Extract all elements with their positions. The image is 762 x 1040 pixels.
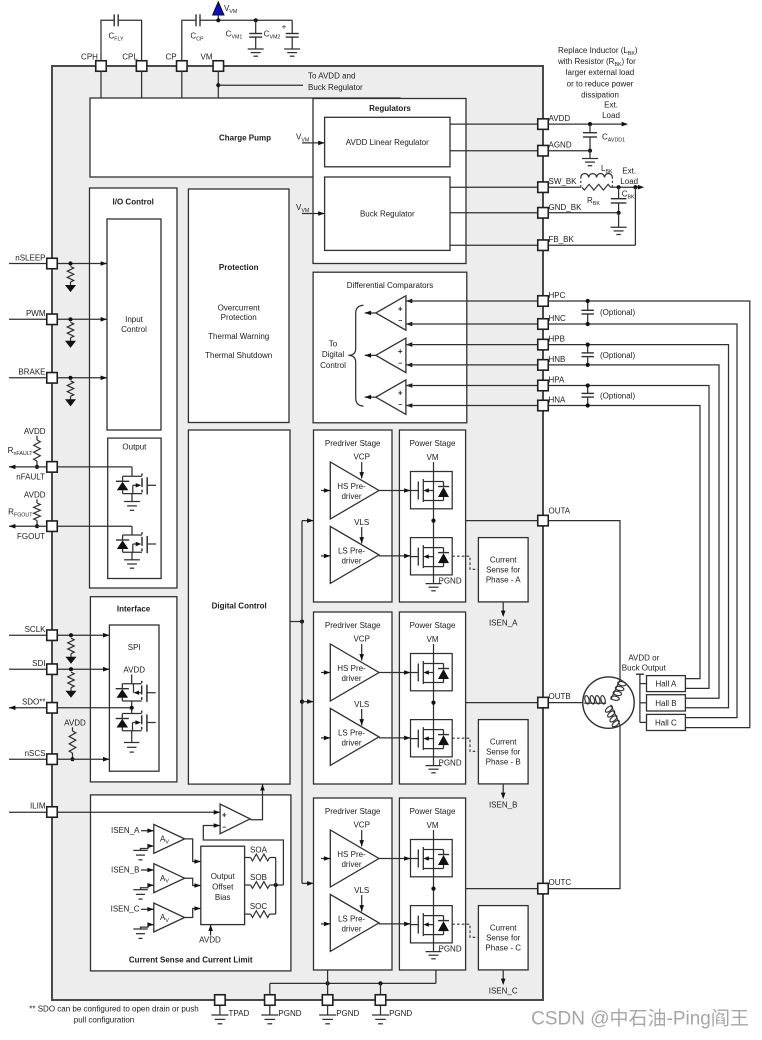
svg-text:CVM1: CVM1 bbox=[226, 30, 243, 41]
pin HNA with wires to comparator and Hall bbox=[406, 396, 700, 679]
block Predriver Stage C bbox=[314, 798, 393, 970]
pin PWM and wire to Input Control bbox=[9, 309, 107, 348]
wire phase node B bbox=[431, 691, 435, 720]
svg-text:driver: driver bbox=[341, 924, 361, 933]
block Power Stage B bbox=[399, 612, 465, 784]
svg-text:AVDD: AVDD bbox=[24, 427, 46, 436]
wire SW_BK output node with Ext Load arrow bbox=[617, 167, 645, 190]
wire CPH to Charge Pump bbox=[100, 71, 102, 98]
svg-text:Current Sense and Current Limi: Current Sense and Current Limit bbox=[129, 956, 253, 965]
pin HPA with wires to comparator and Hall bbox=[406, 376, 709, 689]
block Power Stage C bbox=[399, 798, 465, 970]
svg-text:Input: Input bbox=[125, 315, 144, 324]
svg-text:ISEN_A: ISEN_A bbox=[111, 826, 140, 835]
svg-text:PGND: PGND bbox=[439, 576, 462, 585]
svg-text:Thermal Warning: Thermal Warning bbox=[208, 332, 269, 341]
transistor nFAULT output driver with ground bbox=[116, 473, 156, 510]
svg-text:ISEN_C: ISEN_C bbox=[489, 987, 518, 996]
wire VM top rail bbox=[216, 18, 292, 22]
svg-text:−: − bbox=[398, 360, 402, 367]
svg-text:CSDN @中石油-Ping阎王: CSDN @中石油-Ping阎王 bbox=[531, 1008, 749, 1030]
svg-text:Hall C: Hall C bbox=[655, 719, 677, 728]
wire AGND regulator to pin bbox=[450, 150, 543, 152]
capacitor optional B-phase bbox=[582, 343, 636, 368]
svg-text:CAVDD1: CAVDD1 bbox=[602, 133, 625, 144]
svg-text:VVM: VVM bbox=[224, 4, 237, 15]
motor (BLDC with three windings) bbox=[583, 677, 634, 728]
wire gate-drive bus from Digital Control bbox=[290, 518, 314, 885]
comparator C-phase (top) bbox=[365, 296, 413, 331]
svg-text:Buck Regulator: Buck Regulator bbox=[360, 210, 415, 219]
pin PGND 3 with ground bbox=[372, 995, 412, 1024]
svg-text:** SDO can be configured to op: ** SDO can be configured to open drain o… bbox=[29, 1005, 198, 1014]
svg-text:OUTC: OUTC bbox=[549, 878, 572, 887]
wire VM rail power stage A bbox=[427, 453, 439, 472]
transistor LS FET C bbox=[379, 906, 452, 943]
wire VVM input to Buck Regulator bbox=[296, 203, 325, 216]
block Hall B bbox=[647, 695, 686, 711]
wire GND_BK external and ground bbox=[548, 213, 626, 235]
brace to digital control bbox=[320, 305, 363, 406]
svg-text:PGND: PGND bbox=[389, 1009, 412, 1018]
svg-text:BRAKE: BRAKE bbox=[18, 368, 45, 377]
wire comparator output to Digital Control bbox=[250, 784, 265, 820]
svg-text:Sense for: Sense for bbox=[486, 748, 521, 757]
svg-text:+: + bbox=[398, 389, 403, 398]
svg-text:Buck Output: Buck Output bbox=[622, 664, 667, 673]
svg-text:(Optional): (Optional) bbox=[600, 392, 635, 401]
svg-text:Bias: Bias bbox=[215, 893, 231, 902]
op-amp LS Pre-driver C bbox=[321, 886, 379, 951]
svg-text:VCP: VCP bbox=[353, 635, 369, 644]
svg-text:Predriver Stage: Predriver Stage bbox=[325, 439, 381, 448]
svg-text:HNB: HNB bbox=[549, 355, 566, 364]
pin TPAD with ground bbox=[211, 995, 249, 1024]
footnote SDO configuration bbox=[29, 1005, 198, 1025]
resistor RFGOUT pullup to AVDD bbox=[8, 491, 46, 529]
svg-text:AVDD: AVDD bbox=[64, 719, 86, 728]
svg-text:RFGOUT: RFGOUT bbox=[8, 508, 33, 519]
block Current Sense for Phase - C bbox=[478, 906, 528, 970]
inductor LBK with resistor RBK alternative bbox=[548, 164, 618, 207]
pin HPC with wires to comparator and Hall bbox=[406, 291, 750, 728]
pin nSLEEP and wire to Input Control bbox=[9, 254, 107, 293]
op-amp HS Pre-driver C bbox=[321, 821, 379, 888]
block Output Offset Bias bbox=[201, 846, 245, 924]
block Buck Regulator bbox=[325, 177, 450, 250]
svg-text:CCP: CCP bbox=[190, 32, 204, 43]
wire ISEN_A output bbox=[489, 602, 518, 628]
wire AVDD regulator to pin bbox=[450, 123, 543, 125]
transistor SPI push-pull output stage bbox=[116, 675, 156, 753]
supply symbol VVM (blue triangle) bbox=[213, 2, 238, 20]
wire VM rail power stage C bbox=[427, 821, 439, 840]
svg-text:Load: Load bbox=[620, 177, 638, 186]
svg-text:LS Pre-: LS Pre- bbox=[338, 728, 365, 737]
wire ISEN_B output bbox=[489, 784, 517, 810]
wire VM rail power stage B bbox=[427, 635, 439, 654]
pin HNC with wires to comparator and Hall bbox=[406, 314, 737, 718]
block Current Sense for Phase - B bbox=[478, 720, 528, 784]
block Protection bbox=[188, 189, 289, 423]
svg-text:SOA: SOA bbox=[250, 846, 268, 855]
svg-text:VM: VM bbox=[201, 53, 213, 62]
svg-text:To AVDD and: To AVDD and bbox=[308, 72, 355, 81]
capacitor optional A-phase bbox=[582, 383, 636, 407]
svg-text:ISEN_B: ISEN_B bbox=[111, 865, 139, 874]
pin PGND 1 with ground bbox=[261, 995, 301, 1024]
svg-text:driver: driver bbox=[341, 738, 361, 747]
svg-text:Hall B: Hall B bbox=[655, 699, 676, 708]
svg-text:+: + bbox=[282, 23, 287, 32]
wire current sense tap B (dashed) bbox=[452, 738, 478, 751]
wire phase node A bbox=[431, 509, 435, 538]
svg-text:Control: Control bbox=[121, 325, 147, 334]
svg-text:driver: driver bbox=[341, 674, 361, 683]
transistor HS FET B bbox=[379, 654, 452, 691]
svg-text:Charge Pump: Charge Pump bbox=[219, 134, 271, 143]
svg-text:LBK: LBK bbox=[601, 164, 613, 175]
svg-text:Ext.: Ext. bbox=[604, 101, 618, 110]
wire phase node C bbox=[431, 877, 435, 906]
svg-text:Regulators: Regulators bbox=[369, 104, 411, 113]
svg-text:AVDD: AVDD bbox=[24, 491, 46, 500]
pin HNB with wires to comparator and Hall bbox=[406, 355, 719, 698]
svg-text:AVDD or: AVDD or bbox=[628, 653, 659, 662]
svg-text:SPI: SPI bbox=[128, 643, 141, 652]
block Interface bbox=[90, 597, 176, 782]
wire PGND bottom bus bbox=[270, 970, 436, 995]
svg-text:driver: driver bbox=[341, 860, 361, 869]
pin SDI and wire to SPI bbox=[9, 659, 109, 698]
svg-text:LS Pre-: LS Pre- bbox=[338, 914, 365, 923]
transistor FGOUT output driver with ground bbox=[116, 532, 156, 568]
wire AGND external and ground bbox=[548, 151, 598, 166]
wire AVDD external with Ext Load arrow bbox=[548, 101, 628, 127]
block SPI bbox=[109, 625, 159, 771]
svg-text:+: + bbox=[398, 304, 403, 313]
block Charge Pump bbox=[90, 98, 400, 177]
svg-text:ISEN_B: ISEN_B bbox=[489, 801, 517, 810]
wire GND_BK regulator to pin bbox=[450, 212, 543, 214]
svg-text:+: + bbox=[398, 347, 403, 356]
svg-text:PGND: PGND bbox=[278, 1009, 301, 1018]
pin nFAULT (open-drain output) bbox=[9, 462, 132, 482]
block Differential Comparators bbox=[313, 272, 467, 423]
block Output bbox=[108, 438, 161, 578]
wire CPL to Charge Pump bbox=[141, 71, 143, 98]
svg-text:or to reduce power: or to reduce power bbox=[567, 80, 634, 89]
pin CPL bbox=[122, 53, 147, 72]
svg-text:Overcurrent: Overcurrent bbox=[218, 304, 261, 313]
svg-text:Predriver Stage: Predriver Stage bbox=[325, 621, 381, 630]
capacitor CVM1 bbox=[226, 20, 264, 56]
svg-text:HS Pre-: HS Pre- bbox=[337, 482, 366, 491]
svg-text:Digital: Digital bbox=[322, 350, 344, 359]
transistor LS FET B bbox=[379, 720, 452, 757]
svg-text:PGND: PGND bbox=[336, 1009, 359, 1018]
block Hall C bbox=[647, 714, 686, 730]
svg-text:Sense for: Sense for bbox=[486, 566, 521, 575]
svg-text:Sense for: Sense for bbox=[486, 934, 521, 943]
svg-text:Output: Output bbox=[211, 872, 236, 881]
svg-text:Load: Load bbox=[602, 111, 620, 120]
svg-text:nSCS: nSCS bbox=[25, 749, 46, 758]
svg-text:RnFAULT: RnFAULT bbox=[8, 446, 34, 457]
svg-text:−: − bbox=[222, 824, 226, 831]
text Ext Load second line bbox=[620, 177, 638, 186]
pin BRAKE and wire to Input Control bbox=[9, 368, 107, 407]
svg-text:(Optional): (Optional) bbox=[600, 351, 635, 360]
svg-text:AVDD Linear Regulator: AVDD Linear Regulator bbox=[346, 138, 429, 147]
amplifier AV phase B with ISEN_B input and ground bbox=[111, 864, 201, 899]
svg-text:CFLY: CFLY bbox=[108, 32, 124, 43]
pin OUTB with wire to motor bbox=[466, 692, 585, 708]
wire SO summing bus bbox=[275, 858, 277, 915]
resistor SOB bbox=[245, 873, 284, 888]
svg-text:Interface: Interface bbox=[117, 605, 151, 614]
resistor pullup to AVDD on nSCS bbox=[64, 719, 86, 762]
op-amp LS Pre-driver A bbox=[321, 518, 379, 583]
capacitor CVM2 (polarized) bbox=[264, 20, 301, 56]
pin SW_BK bbox=[538, 177, 577, 192]
svg-text:PGND: PGND bbox=[439, 944, 462, 953]
svg-text:AGND: AGND bbox=[549, 141, 572, 150]
pin HPB with wires to comparator and Hall bbox=[406, 335, 729, 708]
svg-text:SCLK: SCLK bbox=[25, 625, 47, 634]
block Digital Control bbox=[188, 430, 290, 784]
svg-text:CPL: CPL bbox=[122, 53, 138, 62]
svg-text:AVDD: AVDD bbox=[549, 114, 571, 123]
op-amp LS Pre-driver B bbox=[321, 700, 379, 765]
amplifier AV phase A with ISEN_A input and ground bbox=[111, 824, 201, 863]
svg-text:TPAD: TPAD bbox=[229, 1009, 250, 1018]
watermark CSDN bbox=[531, 1008, 749, 1030]
capacitor CCP (between CP and VM) bbox=[182, 14, 219, 66]
wire current sense tap C (dashed) bbox=[452, 924, 478, 937]
pin CPH bbox=[81, 53, 106, 72]
pin OUTA with wire to motor bbox=[466, 507, 620, 681]
svg-text:larger external load: larger external load bbox=[566, 68, 634, 77]
wire AVDD or Buck Output supply to halls bbox=[622, 653, 667, 722]
svg-text:Hall A: Hall A bbox=[655, 680, 677, 689]
svg-text:PGND: PGND bbox=[439, 758, 462, 767]
pin CP bbox=[165, 53, 187, 72]
ground PGND power stage A bbox=[426, 575, 462, 591]
svg-text:PWM: PWM bbox=[26, 309, 46, 318]
ground PGND power stage C bbox=[426, 943, 462, 959]
svg-text:Output: Output bbox=[122, 443, 147, 452]
svg-text:Differential Comparators: Differential Comparators bbox=[347, 281, 434, 290]
svg-text:SW_BK: SW_BK bbox=[549, 177, 578, 186]
svg-text:Power Stage: Power Stage bbox=[410, 807, 456, 816]
pin ILIM and wire to comparator bbox=[9, 802, 220, 818]
svg-text:RBK: RBK bbox=[587, 196, 600, 207]
resistor SOC bbox=[245, 902, 276, 918]
svg-text:Phase - A: Phase - A bbox=[486, 576, 521, 585]
op-amp HS Pre-driver A bbox=[321, 453, 379, 520]
svg-text:CP: CP bbox=[165, 53, 176, 62]
svg-text:AVDD: AVDD bbox=[199, 936, 221, 945]
svg-text:SDO**: SDO** bbox=[22, 698, 46, 707]
block Current Sense for Phase - A bbox=[478, 538, 528, 602]
block Hall A bbox=[647, 676, 686, 692]
wire ISEN_C output bbox=[489, 970, 518, 996]
svg-text:Ext.: Ext. bbox=[622, 167, 636, 176]
pin FGOUT (output) bbox=[9, 521, 132, 541]
svg-text:Protection: Protection bbox=[219, 263, 259, 272]
svg-text:HNC: HNC bbox=[549, 314, 567, 323]
svg-text:VCP: VCP bbox=[353, 453, 369, 462]
svg-text:I/O Control: I/O Control bbox=[113, 198, 154, 207]
wire CP to Charge Pump bbox=[181, 71, 183, 98]
wire SW_BK regulator to pin bbox=[450, 186, 543, 188]
pin nSCS and wire to SPI bbox=[9, 749, 109, 764]
resistor RnFAULT pullup to AVDD bbox=[8, 427, 46, 469]
wire current sense tap A (dashed) bbox=[452, 556, 478, 569]
capacitor optional C-phase bbox=[582, 299, 636, 326]
chip body (device outline) bbox=[52, 66, 543, 1000]
block AVDD Linear Regulator bbox=[325, 117, 450, 167]
block Power Stage A bbox=[399, 430, 465, 602]
block Current Sense and Current Limit bbox=[91, 795, 291, 971]
svg-text:−: − bbox=[398, 318, 402, 325]
svg-text:nFAULT: nFAULT bbox=[16, 473, 45, 482]
block Predriver Stage A bbox=[314, 430, 393, 602]
pin GND_BK bbox=[538, 203, 582, 218]
svg-text:driver: driver bbox=[341, 492, 361, 501]
svg-text:ISEN_C: ISEN_C bbox=[111, 905, 140, 914]
svg-text:Current: Current bbox=[490, 924, 517, 933]
svg-text:Phase - B: Phase - B bbox=[486, 758, 521, 767]
svg-text:nSLEEP: nSLEEP bbox=[15, 254, 45, 263]
pin PGND 2 with ground bbox=[319, 995, 359, 1024]
svg-text:Replace Inductor (LBK): Replace Inductor (LBK) bbox=[558, 46, 638, 57]
wire FB_BK regulator to pin bbox=[450, 244, 543, 246]
wire FB_BK external feedback bbox=[548, 187, 635, 245]
pin AVDD bbox=[538, 114, 571, 129]
pin OUTC with wire to motor bbox=[466, 725, 620, 894]
svg-text:SOC: SOC bbox=[250, 902, 268, 911]
comparator A-phase (bottom) bbox=[365, 380, 413, 415]
wire VM to Charge Pump and AVDD tap bbox=[216, 71, 363, 98]
wire comparator inverting feedback from SO bus bbox=[203, 823, 283, 885]
svg-text:Predriver Stage: Predriver Stage bbox=[325, 807, 381, 816]
ground PGND power stage B bbox=[426, 757, 462, 773]
svg-text:CPH: CPH bbox=[81, 53, 98, 62]
svg-text:pull configuration: pull configuration bbox=[74, 1016, 134, 1025]
svg-text:HPA: HPA bbox=[549, 376, 566, 385]
svg-text:VLS: VLS bbox=[354, 700, 369, 709]
svg-text:with Resistor (RBK) for: with Resistor (RBK) for bbox=[557, 57, 636, 68]
note replace inductor bbox=[557, 46, 638, 100]
pin FB_BK bbox=[538, 235, 575, 250]
svg-text:HNA: HNA bbox=[549, 396, 567, 405]
op-amp current limit comparator bbox=[220, 804, 250, 834]
svg-text:Phase - C: Phase - C bbox=[485, 944, 521, 953]
svg-text:VM: VM bbox=[427, 821, 439, 830]
svg-text:LS Pre-: LS Pre- bbox=[338, 546, 365, 555]
wire VVM input to AVDD Linear Regulator bbox=[296, 133, 325, 146]
capacitor CAVDD1 bbox=[583, 124, 625, 153]
block Regulators bbox=[313, 99, 466, 264]
svg-text:SDI: SDI bbox=[32, 659, 45, 668]
transistor HS FET A bbox=[379, 472, 452, 509]
svg-text:VM: VM bbox=[427, 635, 439, 644]
svg-text:HS Pre-: HS Pre- bbox=[337, 850, 366, 859]
block Predriver Stage B bbox=[314, 612, 393, 784]
block Input Control bbox=[107, 219, 161, 430]
svg-text:OUTA: OUTA bbox=[549, 507, 571, 516]
svg-text:Control: Control bbox=[320, 361, 346, 370]
svg-text:Protection: Protection bbox=[221, 313, 257, 322]
transistor LS FET A bbox=[379, 538, 452, 575]
svg-text:Current: Current bbox=[490, 738, 517, 747]
svg-text:ILIM: ILIM bbox=[30, 802, 46, 811]
svg-text:HPC: HPC bbox=[549, 291, 566, 300]
svg-text:driver: driver bbox=[341, 556, 361, 565]
svg-text:Power Stage: Power Stage bbox=[410, 621, 456, 630]
svg-text:HS Pre-: HS Pre- bbox=[337, 664, 366, 673]
transistor HS FET C bbox=[379, 840, 452, 877]
comparator B-phase (middle) bbox=[365, 338, 413, 373]
svg-text:Current: Current bbox=[490, 556, 517, 565]
capacitor CFLY (between CPH and CPL) bbox=[101, 14, 142, 66]
svg-text:GND_BK: GND_BK bbox=[549, 203, 583, 212]
pin AGND bbox=[538, 141, 572, 156]
svg-text:+: + bbox=[222, 810, 227, 819]
svg-text:To: To bbox=[329, 340, 338, 349]
pin VM bbox=[201, 53, 224, 72]
svg-text:ISEN_A: ISEN_A bbox=[489, 619, 518, 628]
svg-text:FGOUT: FGOUT bbox=[17, 532, 45, 541]
svg-text:Thermal Shutdown: Thermal Shutdown bbox=[205, 351, 272, 360]
svg-text:VLS: VLS bbox=[354, 518, 369, 527]
svg-text:Offset: Offset bbox=[212, 883, 234, 892]
svg-text:Power Stage: Power Stage bbox=[410, 439, 456, 448]
svg-text:Digital Control: Digital Control bbox=[212, 602, 267, 611]
svg-text:VM: VM bbox=[427, 453, 439, 462]
capacitor CBK bbox=[611, 187, 635, 215]
pin SCLK and wire to SPI bbox=[9, 625, 109, 664]
svg-text:HPB: HPB bbox=[549, 335, 565, 344]
wire AVDD into Output Offset Bias bbox=[199, 925, 221, 945]
svg-text:FB_BK: FB_BK bbox=[549, 235, 575, 244]
svg-text:−: − bbox=[398, 402, 402, 409]
pin SDO (output) wire bbox=[9, 698, 132, 714]
svg-text:VCP: VCP bbox=[353, 821, 369, 830]
svg-text:dissipation: dissipation bbox=[581, 91, 619, 100]
amplifier AV phase C with ISEN_C input and ground bbox=[111, 903, 201, 938]
svg-text:(Optional): (Optional) bbox=[600, 308, 635, 317]
svg-text:AVDD: AVDD bbox=[123, 665, 145, 674]
svg-text:VLS: VLS bbox=[354, 886, 369, 895]
svg-text:Buck Regulator: Buck Regulator bbox=[308, 83, 363, 92]
svg-text:SOB: SOB bbox=[250, 873, 267, 882]
op-amp HS Pre-driver B bbox=[321, 635, 379, 702]
resistor SOA bbox=[245, 846, 276, 861]
svg-text:OUTB: OUTB bbox=[549, 692, 571, 701]
svg-text:CVM2: CVM2 bbox=[264, 30, 281, 41]
block I/O Control bbox=[90, 188, 178, 588]
